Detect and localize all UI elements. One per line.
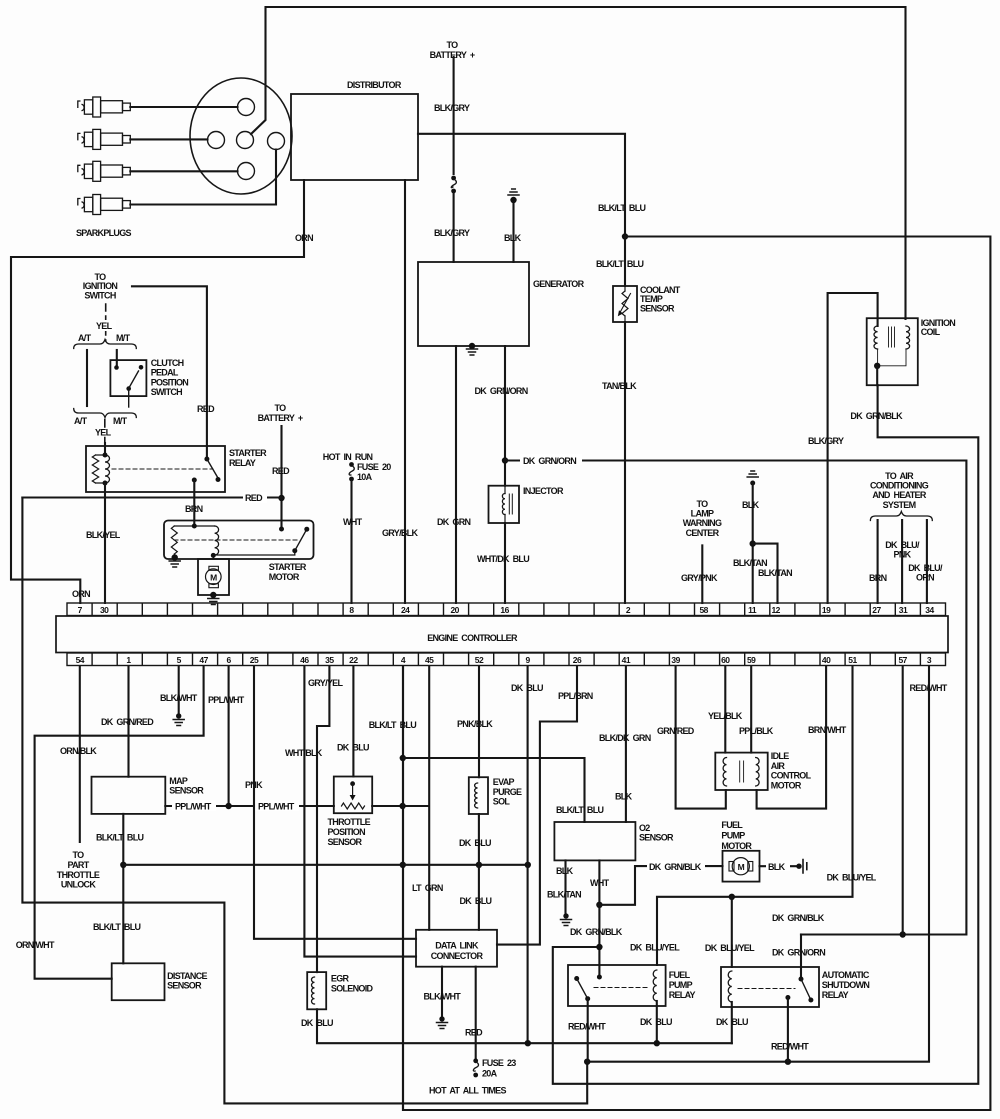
distributor cap terminal bottom	[238, 163, 255, 180]
wire PPL/BLK pin 59 to IAC	[750, 666, 752, 753]
starter relay blade	[207, 459, 218, 478]
clutch switch blade	[129, 371, 139, 389]
starter motor RED feed terminal	[281, 522, 283, 527]
starter relay dashed link	[112, 468, 213, 470]
spark plug 3	[78, 161, 131, 181]
svg-text:BLK/LT BLU: BLK/LT BLU	[96, 833, 144, 843]
svg-text:BLK/GRY: BLK/GRY	[808, 436, 844, 446]
TPS wiper terminal	[350, 781, 355, 786]
svg-text:GENERATOR: GENERATOR	[533, 279, 585, 289]
wire DK BLU fuel pump relay coil	[656, 1001, 658, 1043]
generator box	[418, 262, 529, 346]
wire RED battery drop	[280, 426, 282, 529]
wire plug2 to cap	[130, 138, 207, 140]
node BLK/TAN junction	[750, 540, 756, 546]
injector coil stubs	[504, 486, 506, 523]
svg-text:47: 47	[199, 655, 208, 665]
node BLK ground terminal	[750, 481, 755, 486]
wire distributor right to BLK/LT BLU corner	[418, 134, 625, 233]
wire DK BLU ASD coil	[731, 1002, 733, 1043]
node TPS output junction	[399, 803, 405, 809]
wire YEL/BLK pin 60 to IAC	[724, 666, 726, 753]
wire WHT O2 to fuel pump relay	[598, 860, 600, 977]
coolant sensor stubs	[624, 286, 626, 322]
starter motor brush bottom	[209, 584, 219, 588]
idle air control motor box	[715, 753, 767, 790]
svg-text:GRN/RED: GRN/RED	[657, 726, 695, 736]
wire BLK/DK GRN pin 41 to O2 sensor	[625, 666, 627, 822]
wire RED/WHT pin 3	[587, 666, 929, 1062]
starter motor BRN terminal	[192, 524, 197, 529]
node sensor return junction 2	[400, 862, 406, 868]
svg-text:DK BLU: DK BLU	[511, 683, 543, 693]
wire PPL/WHT pin 6	[228, 666, 230, 806]
wire DK BLU/YEL to ASD coil	[731, 897, 733, 967]
svg-text:HOT AT ALL TIMES: HOT AT ALL TIMES	[429, 1086, 506, 1096]
starter relay switch input	[204, 457, 209, 462]
automatic shutdown relay box	[721, 967, 819, 1007]
svg-text:34: 34	[925, 605, 934, 615]
spark plug 2	[78, 129, 131, 149]
svg-text:35: 35	[325, 655, 334, 665]
wire ORN/BLK pin 54	[79, 666, 81, 842]
svg-text:19: 19	[822, 605, 831, 615]
svg-text:DK GRN/ORN: DK GRN/ORN	[772, 948, 825, 958]
svg-text:RED: RED	[197, 404, 215, 414]
wire sensor return horizontal	[123, 864, 528, 866]
fuel pump relay coil	[653, 970, 657, 1001]
node PPL/WHT junction	[225, 803, 231, 809]
svg-text:FUSE 23: FUSE 23	[482, 1058, 516, 1068]
svg-text:GRY/BLK: GRY/BLK	[382, 528, 418, 538]
wire DK GRN/ORN to ASD switch	[800, 935, 802, 980]
starter relay coil arcs	[105, 455, 110, 483]
node MAP sensor return junction	[120, 862, 126, 868]
svg-text:BRN/WHT: BRN/WHT	[808, 725, 847, 735]
wire BRN/WHT pin 40 to IAC	[757, 666, 827, 809]
svg-text:DK GRN/BLK: DK GRN/BLK	[772, 913, 825, 923]
node BLK/WHT DLC ground	[439, 1016, 444, 1021]
svg-text:WHT/DK BLU: WHT/DK BLU	[477, 554, 529, 564]
wire DK GRN/ORN to right side	[505, 461, 966, 935]
wire RED ignition switch to starter relay	[132, 286, 207, 458]
wire DK GRN generator to pin 20	[455, 346, 457, 603]
wire pin 57 to DK GRN/ORN	[902, 666, 904, 935]
wire RED horizontal	[22, 496, 281, 498]
svg-text:27: 27	[872, 605, 881, 615]
injector coil	[502, 494, 505, 515]
wire BLK generator top ground	[512, 200, 514, 262]
brace A/T M/T upper	[74, 340, 137, 349]
node generator BLK terminal	[510, 197, 516, 203]
wire coolant sensor drop	[624, 237, 626, 604]
ground pin 5	[173, 720, 184, 726]
svg-text:DK GRN/RED: DK GRN/RED	[101, 717, 154, 727]
svg-text:30: 30	[100, 605, 109, 615]
wire YEL to starter relay coil	[104, 443, 106, 454]
distributor cap terminal left	[208, 132, 225, 149]
ground O2 sensor	[561, 920, 572, 926]
TPS resistor	[342, 803, 365, 809]
ASD relay dashed	[738, 988, 795, 990]
coolant sensor thermistor	[622, 291, 628, 316]
wire RED to bottom loop (left border)	[22, 498, 587, 1104]
wire BRN starter relay to starter motor	[193, 480, 195, 526]
svg-text:WHT: WHT	[343, 517, 363, 527]
ASD relay output terminal	[785, 995, 790, 1000]
wire A/T branch	[86, 350, 88, 406]
svg-text:M/T: M/T	[113, 416, 128, 426]
node fuel pump ground	[796, 864, 801, 869]
wire GRY/BLK distributor to pin 24	[404, 180, 406, 603]
svg-text:DK GRN/BLK: DK GRN/BLK	[649, 862, 702, 872]
fuel pump relay switch input	[574, 976, 579, 981]
svg-text:TAN/BLK: TAN/BLK	[602, 381, 637, 391]
clutch pedal position switch box	[110, 360, 146, 396]
distance sensor box	[112, 963, 165, 1000]
svg-text:BLK/TAN: BLK/TAN	[758, 568, 792, 578]
node WHT junction 2	[596, 944, 602, 950]
ground starter motor bottom	[208, 599, 219, 605]
svg-text:BLK/TAN: BLK/TAN	[547, 890, 581, 900]
svg-text:DATA LINKCONNECTOR: DATA LINKCONNECTOR	[431, 941, 484, 961]
starter motor coil 1	[171, 526, 177, 554]
wire BRN to pin 27	[877, 520, 879, 603]
svg-text:BLK/WHT: BLK/WHT	[424, 992, 462, 1002]
svg-text:ORN: ORN	[72, 589, 90, 599]
svg-text:BRN: BRN	[869, 573, 887, 583]
node pin 57 junction	[900, 931, 906, 937]
wire PPL/BRN pin 26 to data link connector	[497, 666, 577, 945]
svg-text:RED/WHT: RED/WHT	[910, 683, 948, 693]
svg-text:BLK/TAN: BLK/TAN	[733, 558, 767, 568]
wire DK GRN/RED pin 1 to MAP	[127, 666, 129, 777]
wire M/T branch to clutch switch	[116, 350, 118, 366]
svg-text:DK BLU: DK BLU	[337, 743, 369, 753]
wire WHT fuse 20 to pin 8	[350, 481, 352, 603]
starter motor circle	[206, 569, 222, 585]
svg-text:WHT: WHT	[590, 878, 610, 888]
svg-text:BLK/LT BLU: BLK/LT BLU	[93, 922, 141, 932]
distributor cap terminal top	[238, 99, 255, 116]
wire battery to generator lower	[453, 193, 455, 262]
wire BLK/LT BLU to O2 sensor	[403, 758, 585, 822]
svg-text:PPL/WHT: PPL/WHT	[175, 802, 212, 812]
node RED/WHT junction ASD	[785, 1059, 791, 1065]
svg-text:DK BLU/YEL: DK BLU/YEL	[827, 873, 877, 883]
starter motor housing	[198, 559, 229, 595]
wire GRY/PNK to pin 58	[701, 545, 703, 603]
wire YEL dashed (lower)	[104, 420, 106, 443]
fuel pump motor brush right	[748, 862, 753, 872]
svg-text:DK BLU: DK BLU	[716, 1017, 748, 1027]
svg-text:BLK/LT BLU: BLK/LT BLU	[369, 720, 417, 730]
svg-text:24: 24	[401, 605, 410, 615]
svg-text:RED/WHT: RED/WHT	[771, 1042, 809, 1052]
coolant sensor arrow	[621, 294, 631, 312]
spark plug 4	[78, 195, 131, 215]
ignition coil primary	[874, 326, 878, 349]
svg-text:FUSE 20: FUSE 20	[357, 462, 391, 472]
node sensor return junction 1	[400, 755, 406, 761]
wire plug3 to cap	[130, 170, 237, 172]
data link connector box	[416, 930, 497, 967]
EGR coil	[312, 977, 315, 1004]
MAP sensor box	[92, 777, 166, 814]
svg-text:51: 51	[848, 655, 857, 665]
starter motor coil top link	[174, 525, 214, 527]
svg-text:RED: RED	[272, 466, 290, 476]
wire BLK/LT BLU loop right/bottom (to pin 4)	[403, 237, 990, 1111]
throttle position sensor box	[334, 777, 372, 814]
wire PNK/BLK pin 52 to EVAP	[478, 666, 480, 777]
fuel pump relay box	[568, 965, 666, 1006]
wire ORN distributor to pin 7	[11, 180, 304, 603]
svg-text:BLK: BLK	[556, 866, 574, 876]
svg-text:DK BLU/YEL: DK BLU/YEL	[705, 943, 755, 953]
svg-text:40: 40	[822, 655, 831, 665]
svg-text:GRY/YEL: GRY/YEL	[308, 678, 343, 688]
svg-text:RED: RED	[245, 493, 263, 503]
wire DK GRN/ORN generator to injector	[504, 346, 506, 603]
distributor cap terminal right	[268, 133, 285, 150]
node RED junction	[278, 495, 284, 501]
wire DK BLU EGR to relays	[317, 1009, 732, 1043]
svg-text:PPL/BRN: PPL/BRN	[558, 691, 593, 701]
svg-text:11: 11	[748, 605, 757, 615]
wire RED/WHT ASD out	[787, 998, 789, 1062]
starter relay coil top link	[96, 455, 106, 483]
brace A/T M/T lower	[74, 409, 137, 418]
svg-text:M: M	[210, 572, 217, 582]
fuel pump motor circle	[732, 858, 749, 875]
wire ORN/WHT pin 47 to distance sensor	[35, 666, 204, 979]
starter relay blade contact	[216, 477, 221, 482]
wire RED/WHT fuel pump relay out	[587, 999, 589, 1062]
wire LT GRN pin 45 to data link connector	[428, 666, 430, 930]
svg-text:BRN: BRN	[185, 504, 203, 514]
EGR solenoid box	[307, 972, 326, 1009]
svg-text:M: M	[738, 862, 745, 872]
starter motor switch contact	[292, 548, 297, 553]
IAC core	[740, 761, 744, 782]
starter motor brush top	[209, 566, 219, 570]
svg-text:A/T: A/T	[74, 416, 88, 426]
svg-text:46: 46	[300, 655, 309, 665]
wire top border / sensor-return loop (distributor-coolant-pin4)	[251, 7, 906, 319]
svg-text:BLK: BLK	[742, 500, 760, 510]
svg-text:BLK: BLK	[615, 792, 633, 802]
svg-text:A/T: A/T	[78, 333, 92, 343]
injector core	[509, 494, 512, 514]
engine controller connector bottom row	[67, 653, 946, 666]
ignition coil core	[889, 327, 895, 347]
wire GRY/YEL pin 35 to EGR solenoid	[317, 666, 329, 972]
svg-text:BLK/WHT: BLK/WHT	[160, 693, 198, 703]
svg-text:GRY/PNK: GRY/PNK	[681, 573, 718, 583]
svg-text:YEL: YEL	[96, 321, 113, 331]
ground BLK (pins 11-12)	[747, 471, 758, 477]
wire DK BLU/PNK to pin 31	[901, 520, 903, 603]
svg-text:DK BLU: DK BLU	[301, 1018, 333, 1028]
node DK BLU junction pin9	[525, 1040, 531, 1046]
starter relay output terminal	[192, 478, 197, 483]
ignition coil box	[867, 318, 918, 385]
svg-text:59: 59	[747, 655, 756, 665]
starter motor armature terminal	[211, 553, 216, 558]
svg-text:58: 58	[699, 605, 708, 615]
svg-text:BLK/GRY: BLK/GRY	[434, 228, 470, 238]
svg-text:YEL/BLK: YEL/BLK	[708, 711, 743, 721]
svg-text:PPL/WHT: PPL/WHT	[208, 695, 245, 705]
svg-text:ORN/BLK: ORN/BLK	[60, 746, 97, 756]
node BLK/WHT ground terminal	[176, 713, 181, 718]
svg-text:25: 25	[250, 655, 259, 665]
svg-text:BLK/GRY: BLK/GRY	[434, 103, 470, 113]
wire PNK pin 25 to data link connector	[254, 666, 416, 939]
svg-text:10A: 10A	[357, 472, 373, 482]
starter relay coil zigzag	[92, 455, 98, 483]
fusible link battery	[451, 176, 456, 194]
svg-text:ENGINE CONTROLLER: ENGINE CONTROLLER	[427, 633, 518, 643]
starter motor switch blade top	[304, 527, 309, 532]
node DK BLU junction fuel relay	[654, 1040, 660, 1046]
wire GRN/RED pin 39 to IAC	[676, 666, 726, 809]
svg-text:20: 20	[450, 605, 459, 615]
O2 sensor box	[554, 822, 635, 860]
IAC coil left	[723, 758, 726, 787]
ignition coil internal links	[878, 349, 906, 366]
svg-text:PPL/WHT: PPL/WHT	[258, 802, 295, 812]
wire DK BLU pin 22 to TPS	[352, 666, 354, 777]
svg-text:RED: RED	[465, 1028, 483, 1038]
fuse 23	[473, 1058, 478, 1077]
ignition coil secondary	[906, 326, 910, 349]
wire WHT/BLK pin 46 to data link connector	[304, 666, 416, 957]
fuel pump relay output terminal	[585, 996, 590, 1001]
starter motor RED terminal	[279, 527, 284, 532]
svg-text:BLK: BLK	[504, 233, 522, 243]
wire TPS to pin45 line	[372, 805, 428, 807]
wire YEL dashed (ignition to A/T M/T)	[105, 304, 107, 341]
svg-text:DK BLU: DK BLU	[459, 838, 491, 848]
wire DK BLU EVAP to data link connector	[478, 814, 480, 930]
starter motor switch blade	[295, 529, 307, 551]
ASD relay blade contact	[808, 998, 813, 1003]
svg-text:BLK/LT BLU: BLK/LT BLU	[598, 203, 646, 213]
starter motor bottom ground terminal	[210, 592, 216, 598]
node RED/WHT junction fuel	[584, 1059, 590, 1065]
wire DK BLU/ORN to pin 34	[926, 520, 928, 603]
node ASD coil junction	[729, 894, 735, 900]
wire plug1 to cap	[130, 106, 237, 108]
ASD relay coil	[728, 971, 732, 1002]
fuel pump relay dashed	[594, 987, 648, 989]
svg-text:INJECTOR: INJECTOR	[523, 486, 564, 496]
svg-text:ORN/WHT: ORN/WHT	[16, 940, 55, 950]
svg-text:DK GRN/ORN: DK GRN/ORN	[475, 386, 528, 396]
node BLK/LT BLU junction	[622, 233, 628, 239]
svg-text:BLK/YEL: BLK/YEL	[86, 530, 121, 540]
distributor cap circle	[190, 78, 292, 194]
wire BLK/LT BLU MAP to distance sensor	[122, 814, 124, 963]
svg-text:DK BLU/YEL: DK BLU/YEL	[630, 943, 680, 953]
svg-text:DK GRN/ORN: DK GRN/ORN	[523, 456, 576, 466]
EVAP coil	[475, 783, 478, 808]
svg-text:52: 52	[475, 655, 484, 665]
svg-text:12: 12	[771, 605, 780, 615]
svg-text:54: 54	[76, 655, 85, 665]
fuel pump relay blade	[577, 979, 588, 999]
svg-text:57: 57	[898, 655, 907, 665]
wire battery to generator	[453, 57, 455, 174]
IAC coil right	[756, 758, 759, 787]
svg-text:16: 16	[500, 605, 509, 615]
clutch switch terminal 2	[139, 365, 144, 370]
ASD relay blade	[801, 979, 811, 1000]
starter motor coil 2	[215, 526, 219, 555]
clutch switch terminal 3	[126, 386, 131, 391]
battery ground symbol fuel pump	[803, 860, 807, 874]
wire PPL/WHT MAP to TPS	[165, 805, 333, 807]
wire DK GRN/BLK to fuel pump motor	[599, 866, 722, 905]
starter motor box	[164, 521, 314, 560]
node WHT junction 1	[596, 902, 602, 908]
ground generator top	[508, 189, 519, 195]
svg-text:39: 39	[671, 655, 680, 665]
wire BLK/WHT DLC to ground	[441, 967, 443, 1017]
wire DK BLU pin 9	[527, 666, 529, 1043]
TPS wiper arrow	[352, 784, 354, 796]
wire pin 4 sensor return	[402, 666, 404, 1110]
wire BLK/GRY ignition coil to pin 19	[828, 293, 878, 603]
node sensor return junction 4	[525, 862, 531, 868]
starter motor dashed link	[174, 539, 300, 541]
wire RED DLC to fuse 23	[475, 967, 477, 1058]
svg-text:SPARKPLUGS: SPARKPLUGS	[76, 228, 132, 238]
starter relay coil bottom terminal	[103, 481, 108, 486]
engine controller connector top row	[67, 603, 946, 616]
svg-text:20A: 20A	[482, 1069, 498, 1079]
svg-text:BLK/LT BLU: BLK/LT BLU	[596, 259, 644, 269]
starter relay box	[86, 446, 225, 492]
wire BLK ground to pin 11	[752, 483, 754, 603]
engine controller box	[56, 616, 948, 653]
fuel pump relay WHT terminal	[597, 975, 602, 980]
svg-text:DK GRN/BLK: DK GRN/BLK	[850, 411, 903, 421]
starter motor ground terminal	[172, 554, 178, 560]
brace air conditioning	[870, 512, 932, 521]
svg-text:PPL/BLK: PPL/BLK	[739, 726, 774, 736]
svg-text:BLK: BLK	[768, 862, 786, 872]
wire BLK O2 to ground	[564, 860, 566, 914]
starter motor armature wire	[212, 555, 214, 559]
fuel pump motor brush left	[729, 862, 734, 872]
wire DK BLU/YEL pin 51 to relays	[657, 666, 853, 965]
svg-text:ORN: ORN	[295, 233, 313, 243]
svg-text:LT GRN: LT GRN	[412, 883, 443, 893]
svg-text:DISTRIBUTOR: DISTRIBUTOR	[347, 80, 402, 90]
svg-text:31: 31	[899, 605, 908, 615]
node generator case ground	[469, 343, 475, 349]
injector box	[489, 486, 520, 523]
svg-text:PNK/BLK: PNK/BLK	[457, 719, 493, 729]
ground starter motor	[169, 561, 180, 567]
ASD relay switch input	[799, 977, 804, 982]
svg-text:BLK/LT BLU: BLK/LT BLU	[556, 805, 604, 815]
svg-text:60: 60	[721, 655, 730, 665]
fuse 20	[349, 462, 354, 481]
